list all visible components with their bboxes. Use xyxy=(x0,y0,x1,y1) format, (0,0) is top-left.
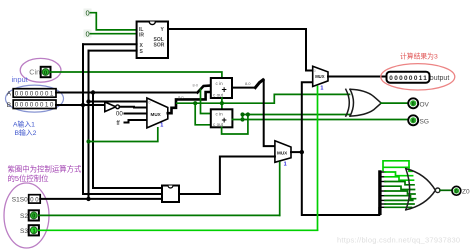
svg-text:的5位控制位: 的5位控制位 xyxy=(8,174,50,183)
output pin OV xyxy=(408,98,418,108)
wire XOR out to OV xyxy=(381,102,408,104)
splitter trunk bar for NOR inputs xyxy=(378,170,381,215)
svg-text:A输入1: A输入1 xyxy=(13,120,35,129)
wire S2 to MUX3 select xyxy=(39,214,280,216)
svg-text:MUX: MUX xyxy=(277,151,288,156)
wire S input xyxy=(89,50,137,52)
svg-text:A: A xyxy=(7,91,12,98)
SECTION: left pins xyxy=(6,44,222,199)
wire MUX1 select xyxy=(89,128,158,142)
wire MUX2 in2 from vertical xyxy=(302,82,380,215)
wire MUX3 out xyxy=(291,151,302,153)
wire MUX3 select xyxy=(279,162,281,215)
constant ff xyxy=(116,120,146,127)
mux MUX3 xyxy=(275,141,291,163)
junction MUX3 out on vertical xyxy=(300,150,304,154)
junction cout join xyxy=(246,112,250,116)
svg-text:Cin: Cin xyxy=(29,68,40,77)
svg-text:OV: OV xyxy=(420,101,430,108)
svg-text:0: 0 xyxy=(455,189,458,195)
output pin SG xyxy=(408,115,418,125)
green drop to adder2 in2 xyxy=(195,103,211,125)
wire B row to NOT gate xyxy=(56,104,105,106)
splitter on A bus xyxy=(193,84,211,114)
svg-text:https://blog.csdn.net/qq_37937: https://blog.csdn.net/qq_37937830 xyxy=(337,236,460,245)
vertical bus wire x93 (A branch to bottom box) xyxy=(93,93,162,189)
svg-text:output: output xyxy=(430,75,450,82)
wire S1S0 to bus xyxy=(40,198,88,200)
svg-text:1: 1 xyxy=(284,162,287,168)
wire adder1 cout to adder2 cin xyxy=(221,98,223,109)
svg-text:MUX: MUX xyxy=(151,112,162,117)
svg-text:计算结果为3: 计算结果为3 xyxy=(400,52,438,61)
svg-text:0: 0 xyxy=(412,102,415,108)
adder U2 xyxy=(211,78,232,98)
svg-text:input: input xyxy=(12,75,29,84)
svg-text:0: 0 xyxy=(44,70,47,76)
junction B row / vertical bus xyxy=(81,103,85,107)
constant 0 (IR) xyxy=(84,30,92,39)
output pin 00000011 xyxy=(387,72,430,83)
NOR gate (zero flag) xyxy=(406,169,440,210)
svg-text:0: 0 xyxy=(86,9,90,18)
wire MUX2 select (bright green from S3) xyxy=(317,87,319,231)
svg-text:ff: ff xyxy=(116,120,120,127)
wire adder2 out (SG line) xyxy=(232,119,408,121)
junction on carry chain xyxy=(220,101,224,105)
zero-detect fan wires (staircase) xyxy=(383,161,416,208)
wire MUX1 output stair to adder1 in2 xyxy=(168,92,211,113)
wire NOR out to Z0 xyxy=(440,189,452,191)
output pin Z0 xyxy=(452,186,461,195)
wire A row to splitter xyxy=(56,92,198,94)
vertical bus wire x88.5 (to S input / bottom box) xyxy=(89,51,163,199)
input pin S3 xyxy=(29,225,39,235)
wire adder2 cout up to XOR line xyxy=(222,115,248,135)
svg-text:c out: c out xyxy=(213,93,224,98)
svg-text:8-0: 8-0 xyxy=(193,84,199,88)
wire XOR bottom input xyxy=(243,114,350,116)
svg-text:S1S0: S1S0 xyxy=(12,197,28,204)
constant 0 (IL) xyxy=(84,9,92,18)
input pin B 00000010 xyxy=(13,100,56,109)
svg-text:1: 1 xyxy=(320,85,323,91)
junction S1S0 bus xyxy=(86,197,90,201)
wire X input xyxy=(83,43,137,45)
wire constant0 to IR xyxy=(91,33,137,35)
svg-text:00: 00 xyxy=(116,110,123,117)
junction A row / vertical bus xyxy=(91,90,95,94)
svg-text:1: 1 xyxy=(160,122,163,128)
mux MUX2 xyxy=(313,66,328,86)
input pin S1S0 xyxy=(29,195,41,204)
input pin S2 xyxy=(29,210,39,220)
green wire y103 (to XOR top input) xyxy=(177,94,350,103)
svg-text:MUX: MUX xyxy=(315,74,325,79)
NOT gate (inverter on B) xyxy=(105,102,147,112)
svg-text:IR: IR xyxy=(139,32,144,38)
svg-text:1: 1 xyxy=(33,229,36,235)
junction MUX1 select / bus xyxy=(86,139,90,143)
wire Y output to MUX2 xyxy=(168,29,313,71)
svg-text:8-0: 8-0 xyxy=(245,82,251,86)
svg-text:紫圈中为控制运算方式: 紫圈中为控制运算方式 xyxy=(8,165,83,174)
SECTION: top shifter xyxy=(83,9,313,71)
svg-text:SOR: SOR xyxy=(154,42,165,48)
SECTION: bottom xyxy=(4,161,470,248)
adder U3 xyxy=(211,109,233,127)
junction MUX1 input1 xyxy=(86,99,90,103)
wire constant0 to IL xyxy=(91,13,137,30)
wire Cin to adder1 c_in xyxy=(51,72,222,78)
green riser x242.5 xyxy=(242,115,244,120)
svg-text:S3: S3 xyxy=(20,228,28,235)
SECTION: middle mux adders xyxy=(86,66,408,230)
wire branch down to MUX3 in1 xyxy=(264,80,275,146)
XOR gate (overflow) xyxy=(346,89,381,116)
wire MUX2 out to output pin xyxy=(328,76,387,78)
splitter stubs xyxy=(382,172,386,207)
decoder box (bottom small box) xyxy=(162,186,179,203)
SECTION: right outputs xyxy=(346,52,455,126)
svg-text:0: 0 xyxy=(314,69,316,73)
wire MUX3 in2 from bottom box xyxy=(179,157,275,195)
wire S3 to MUX2 select (bright) xyxy=(39,229,318,231)
junction SG line xyxy=(240,117,244,121)
svg-text:00000001: 00000001 xyxy=(15,90,55,97)
svg-text:SG: SG xyxy=(420,118,429,125)
input pin A 00000001 xyxy=(13,89,56,98)
annotation ellipse around S pins (purple) xyxy=(4,183,49,248)
svg-text:00000011: 00000011 xyxy=(389,75,428,82)
svg-text:B输入2: B输入2 xyxy=(15,128,37,137)
svg-text:0 0: 0 0 xyxy=(30,197,39,203)
junction y103 drop xyxy=(193,101,197,105)
svg-text:00000010: 00000010 xyxy=(15,102,55,109)
junction XOR bottom input xyxy=(240,112,244,116)
svg-text:c out: c out xyxy=(213,122,224,127)
constant 00 xyxy=(116,110,147,117)
svg-text:Z0: Z0 xyxy=(462,189,470,196)
svg-text:S2: S2 xyxy=(20,213,28,220)
annotation ellipse around output (red) xyxy=(381,64,455,90)
wire adder1 out to MUX2 xyxy=(232,80,263,88)
vertical bus wire x83 (to X input / bottom box) xyxy=(83,44,162,194)
svg-text:0: 0 xyxy=(32,214,35,220)
wire MUX1 input1 xyxy=(89,101,147,103)
svg-text:0: 0 xyxy=(412,119,415,125)
input pin Cin xyxy=(41,67,51,77)
mux MUX1 xyxy=(147,98,168,128)
shifter U1 box xyxy=(137,22,168,59)
svg-text:8-0: 8-0 xyxy=(178,96,184,100)
annotation ellipse around A B pins (blue) xyxy=(6,85,64,112)
svg-text:B: B xyxy=(7,102,11,109)
annotation ellipse around Cin (purple) xyxy=(20,58,61,82)
svg-text:0: 0 xyxy=(86,30,90,39)
